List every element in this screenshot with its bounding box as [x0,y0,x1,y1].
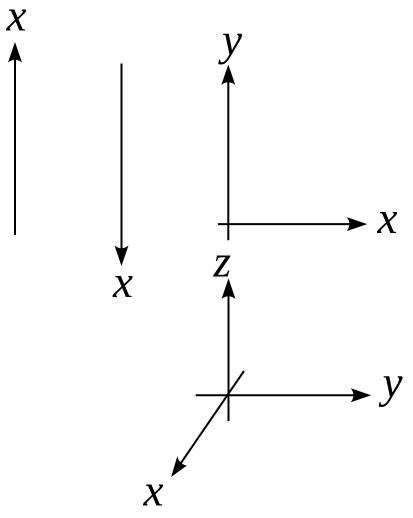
svg-text:y: y [379,358,403,408]
2D axes: y-axis shaft [227,80,229,240]
3D axes: y-axis head (right) [351,388,372,402]
3D axes: x-axis head (down-left) [171,456,187,477]
svg-text:x: x [6,0,27,41]
2D axes: x-axis shaft [218,223,351,225]
svg-text:x: x [143,466,164,516]
3D axes: y-axis shaft [196,394,355,396]
arrow A1: standalone upward x arrow (shaft) [14,58,16,235]
2D axes: y-axis head (up) [221,65,235,86]
svg-text:y: y [218,15,242,65]
2D axes: x-axis head (right) [347,217,368,231]
3D axes: x-axis shaft (diagonal) [180,371,244,464]
3D axes: z-axis shaft [228,294,230,421]
svg-text:x: x [377,193,398,243]
arrow A2: standalone downward x arrow (shaft) [121,64,123,251]
svg-text:z: z [213,237,232,287]
arrow A2 head (down) [115,246,129,267]
3D axes: z-axis head (up) [222,279,236,300]
arrow A1 head (up) [8,42,22,63]
svg-text:x: x [112,257,133,307]
